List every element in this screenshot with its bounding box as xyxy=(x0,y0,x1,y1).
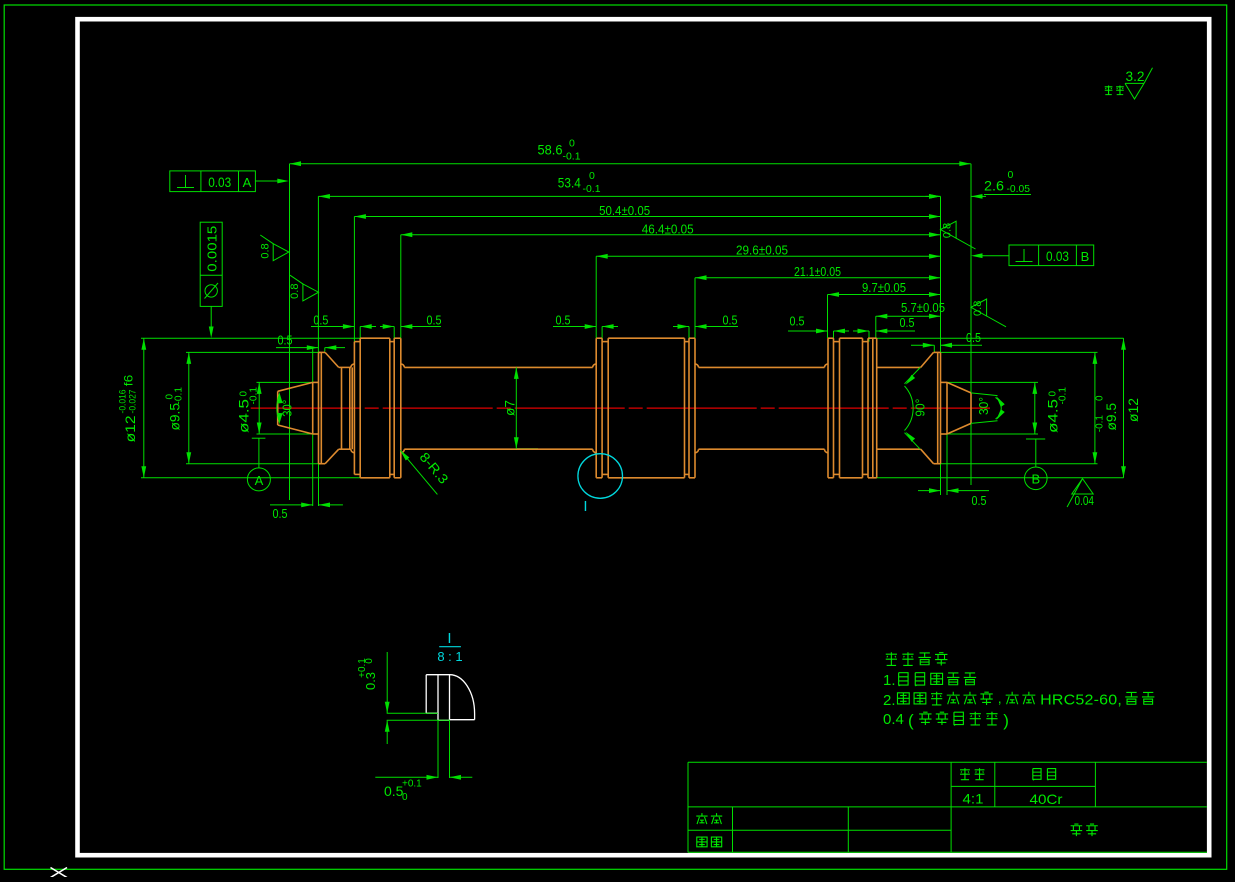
svg-text:30°: 30° xyxy=(976,397,991,415)
svg-text:9.7±0.05: 9.7±0.05 xyxy=(862,280,906,295)
dim o12 -0.016/-0.027 f6 left xyxy=(143,338,145,478)
dim 0.5 groove xyxy=(673,326,689,328)
R3 fillets at disc1 left xyxy=(351,364,355,368)
svg-text:-0.1: -0.1 xyxy=(174,387,185,405)
cone top edge xyxy=(278,382,313,391)
fold mark X on bottom border xyxy=(51,868,68,878)
datum A xyxy=(252,437,266,439)
R3 fillet xyxy=(401,364,405,368)
dim 29.6+-0.05 xyxy=(596,255,940,257)
dim 0.5 groove xyxy=(380,326,394,328)
left end face xyxy=(277,391,279,425)
dim 0.5 groove xyxy=(788,330,828,332)
svg-text:-0.027: -0.027 xyxy=(128,390,139,414)
right 30deg cone xyxy=(947,382,971,393)
svg-text:4:1: 4:1 xyxy=(963,791,984,807)
disc1 left face xyxy=(353,342,355,475)
svg-text:0.03: 0.03 xyxy=(1046,249,1069,264)
svg-text:5.7±0.05: 5.7±0.05 xyxy=(901,300,945,315)
neck groove line xyxy=(351,367,353,449)
datum B xyxy=(1026,438,1045,440)
cone base face xyxy=(312,382,314,434)
svg-text:-0.05: -0.05 xyxy=(1007,183,1031,195)
svg-text:f6: f6 xyxy=(122,374,136,386)
o9.5 disc left face xyxy=(318,352,320,463)
dim o9.5 0/-0.1 right xyxy=(1094,352,1096,463)
dim 58.6 0/-0.1 xyxy=(290,163,971,165)
其余 text xyxy=(1105,86,1124,95)
svg-text:ø7: ø7 xyxy=(503,400,518,416)
o9.5 right face xyxy=(940,352,942,463)
svg-text:B: B xyxy=(1031,472,1040,487)
roughness 0.8 on right ext xyxy=(941,221,957,238)
dim o4.5 0/-0.1 right xyxy=(1034,382,1036,434)
dim o12 right xyxy=(1123,338,1125,478)
svg-text:0: 0 xyxy=(589,170,595,182)
title block xyxy=(688,761,1207,763)
0.5 land o4.5 xyxy=(313,381,319,383)
dim 0.5 land xyxy=(911,344,934,346)
0.04 mark with triangle xyxy=(1072,479,1093,494)
svg-text:0.8: 0.8 xyxy=(289,284,301,299)
tolerance frame perp 0.03 A xyxy=(170,171,256,192)
dim 21.1+-0.05 xyxy=(695,277,941,279)
dim 0.5 land2 xyxy=(276,347,318,349)
svg-text:30°: 30° xyxy=(280,400,295,417)
svg-text:0.5: 0.5 xyxy=(966,330,981,345)
roughness 0.8 on 53.4 ext xyxy=(303,284,319,301)
dim o4.5 0/-0.1 left xyxy=(258,382,260,434)
detail dim 0.3 xyxy=(386,652,388,713)
svg-text:0.03: 0.03 xyxy=(208,175,231,190)
neck groove line xyxy=(349,367,351,449)
svg-text:-0.1: -0.1 xyxy=(249,387,260,405)
neck o7.3 xyxy=(339,366,351,368)
svg-text:0.04: 0.04 xyxy=(1075,493,1095,508)
svg-text:0.5: 0.5 xyxy=(273,506,288,521)
neck groove line xyxy=(341,367,343,449)
dim 0.5 groove xyxy=(311,326,354,328)
30deg angle dim left cone xyxy=(277,394,280,422)
svg-text:0.0015: 0.0015 xyxy=(206,226,220,272)
dim 50.4+-0.05 xyxy=(354,216,940,218)
detail circle I on main view xyxy=(578,454,623,499)
svg-text:0: 0 xyxy=(569,138,575,150)
svg-text:2.: 2. xyxy=(883,692,896,709)
svg-text:0.5: 0.5 xyxy=(313,313,328,328)
cone bottom edge xyxy=(278,425,313,434)
svg-text:0.4: 0.4 xyxy=(883,711,904,728)
svg-text:53.4: 53.4 xyxy=(558,175,581,190)
roughness 0.8 on 58.6 ext xyxy=(273,244,289,261)
svg-text:0.8: 0.8 xyxy=(972,301,984,316)
svg-text:ø12: ø12 xyxy=(123,415,138,442)
svg-text:-0.1: -0.1 xyxy=(1058,387,1069,405)
svg-text:(: ( xyxy=(908,711,914,730)
detail dim 0.5 xyxy=(437,720,439,778)
dim 0.5 relief xyxy=(918,490,941,492)
right neck o7.2 xyxy=(877,366,921,368)
svg-text:0: 0 xyxy=(364,658,375,664)
svg-text:0.8: 0.8 xyxy=(942,223,954,238)
o7 shaft 2 xyxy=(699,366,825,368)
svg-text:3.2: 3.2 xyxy=(1126,69,1145,84)
extension lines (vertical) xyxy=(289,164,291,500)
30deg angle dim right cone xyxy=(971,393,998,396)
svg-text:-0.1: -0.1 xyxy=(563,151,581,163)
title text 审核 xyxy=(697,837,722,847)
dim 5.7+-0.05 xyxy=(876,315,941,317)
o12 disc 3 (right) xyxy=(827,338,829,478)
o12 disc 2 (middle) xyxy=(595,338,597,478)
svg-text:8 : 1: 8 : 1 xyxy=(437,649,462,664)
roughness 0.8 on end ext xyxy=(971,299,987,316)
R3 fillet xyxy=(593,364,597,368)
90deg chamfer cone xyxy=(921,352,934,367)
svg-text:0.5: 0.5 xyxy=(384,783,404,799)
svg-text:90°: 90° xyxy=(913,399,928,417)
svg-text:0.5: 0.5 xyxy=(900,315,915,330)
svg-text:0.5: 0.5 xyxy=(278,333,293,348)
right end face xyxy=(970,393,972,424)
surface finish 3.2 (top-right corner) xyxy=(1125,82,1144,84)
o7 shaft 1 xyxy=(404,366,592,368)
R3 fillet xyxy=(695,364,699,368)
tolerance frame perp 0.03 B xyxy=(1009,245,1094,266)
o9.5 land xyxy=(319,351,326,353)
centerline xyxy=(251,407,990,409)
svg-text:0: 0 xyxy=(402,792,408,803)
o9.5 right land xyxy=(934,351,941,353)
svg-text:): ) xyxy=(1003,711,1009,730)
svg-text:HRC52-60,: HRC52-60, xyxy=(1040,692,1122,709)
svg-text:46.4±0.05: 46.4±0.05 xyxy=(642,222,694,237)
o4.5 right land xyxy=(941,381,948,383)
svg-text:0.5: 0.5 xyxy=(790,314,805,329)
dim o7 xyxy=(515,367,517,448)
svg-text:0.5: 0.5 xyxy=(972,493,987,508)
svg-text:29.6±0.05: 29.6±0.05 xyxy=(736,243,788,258)
svg-text:0.5: 0.5 xyxy=(723,313,738,328)
chamfer to neck xyxy=(325,352,339,367)
svg-text:40Cr: 40Cr xyxy=(1030,791,1063,807)
svg-text:0.5: 0.5 xyxy=(427,313,442,328)
svg-text:ø9.5: ø9.5 xyxy=(168,403,183,431)
dim 53.4 0/-0.1 xyxy=(318,195,940,197)
dim 0.5 land xyxy=(270,504,313,506)
tolerance frame circularity 0.0015 xyxy=(200,222,222,306)
svg-text:-0.1: -0.1 xyxy=(1095,415,1106,433)
svg-text:58.6: 58.6 xyxy=(538,142,563,157)
dim o9.5 0/-0.1 left xyxy=(188,352,190,463)
svg-text:1.: 1. xyxy=(883,672,896,689)
extension lines (horizontal) xyxy=(141,337,360,339)
svg-text:ø12: ø12 xyxy=(1126,398,1141,422)
leader 8-R.3 xyxy=(400,450,437,494)
title text 比例 xyxy=(960,768,984,780)
svg-text:B: B xyxy=(1081,249,1090,264)
title text 材料 xyxy=(1033,769,1056,781)
svg-text:-0.1: -0.1 xyxy=(583,183,601,195)
part name 阀芯 xyxy=(1071,824,1098,836)
svg-text:I: I xyxy=(447,630,451,647)
title text 制图 xyxy=(696,813,722,824)
svg-text:ø9.5: ø9.5 xyxy=(1104,403,1119,431)
dim 46.4+-0.05 xyxy=(401,234,941,236)
90deg angle dim right chamfer xyxy=(905,368,921,384)
tech requirements 技术要求 xyxy=(886,652,948,665)
svg-text:A: A xyxy=(243,175,252,190)
dim 0.5 groove xyxy=(853,330,869,332)
dim 9.7+-0.05 xyxy=(828,294,941,296)
dim 0.5 groove xyxy=(553,326,596,328)
svg-text:21.1±0.05: 21.1±0.05 xyxy=(794,264,841,279)
svg-text:50.4±0.05: 50.4±0.05 xyxy=(599,203,650,218)
svg-text:+0.1: +0.1 xyxy=(402,779,422,790)
svg-text:2.6: 2.6 xyxy=(984,179,1004,194)
svg-text:,: , xyxy=(998,690,1002,706)
svg-text:0: 0 xyxy=(1095,395,1106,401)
svg-text:A: A xyxy=(255,473,264,488)
dim 2.6 0/-0.05 xyxy=(926,195,941,197)
svg-text:0.8: 0.8 xyxy=(259,243,271,258)
R3 fillet xyxy=(825,364,829,368)
svg-text:0.5: 0.5 xyxy=(556,313,571,328)
svg-text:I: I xyxy=(583,498,587,515)
detail view I 8:1 outline (white) xyxy=(426,674,449,676)
svg-text:0: 0 xyxy=(1008,169,1014,181)
